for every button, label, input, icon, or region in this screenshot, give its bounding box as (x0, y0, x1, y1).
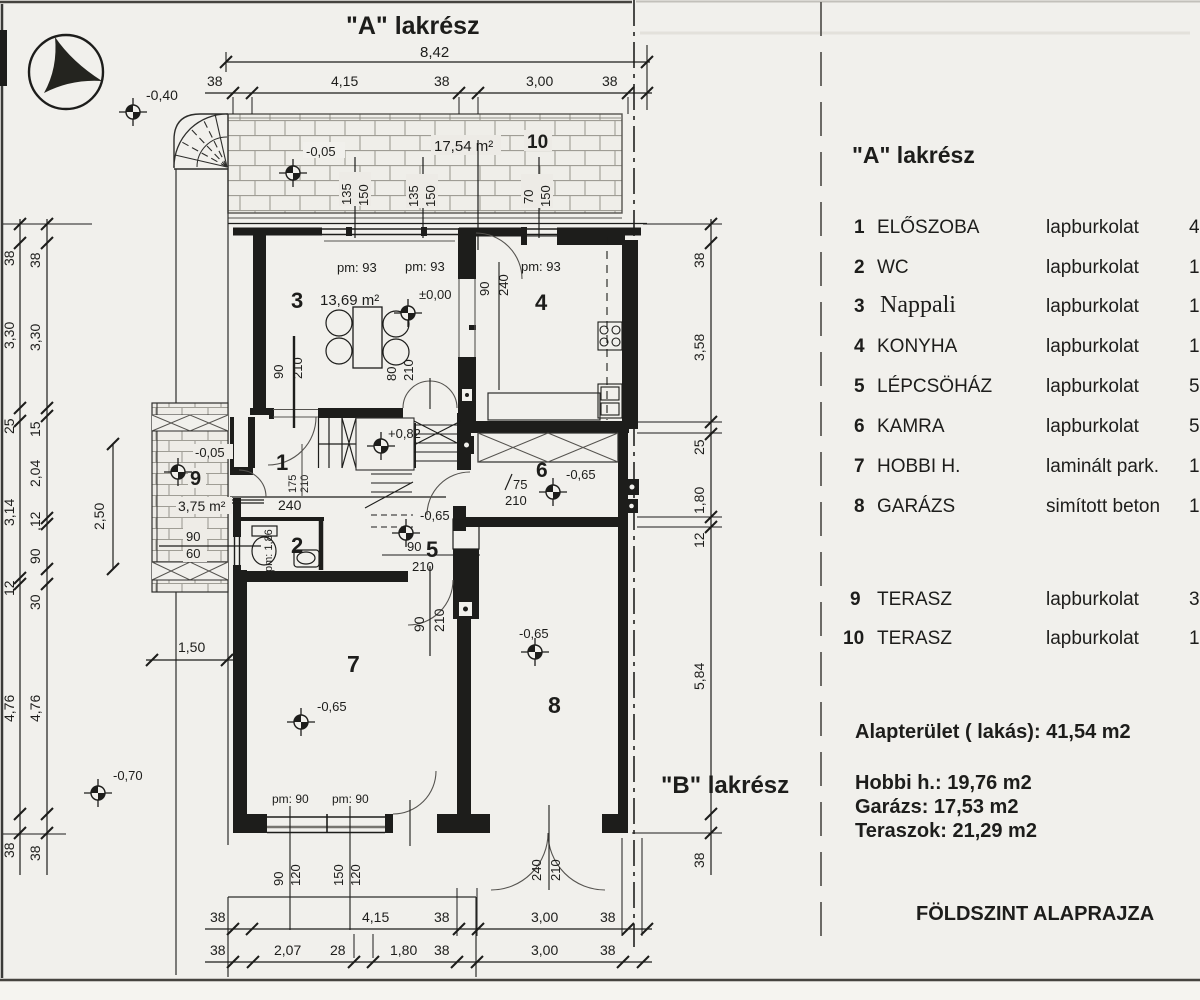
page border top (0, 1, 632, 4)
svg-text:1: 1 (1189, 336, 1200, 357)
north arrow (29, 35, 103, 109)
svg-text:38: 38 (1, 842, 17, 858)
stair landing (356, 418, 414, 470)
svg-text:38: 38 (434, 909, 450, 925)
kitchen inner face line (476, 235, 557, 237)
room7 door arc (408, 580, 453, 625)
legend row 6 KAMRA (854, 416, 1200, 437)
svg-text:2,07: 2,07 (274, 942, 301, 958)
svg-text:175: 175 (287, 475, 299, 493)
survey cross +0,82 (367, 432, 395, 460)
bottom window room7 band (267, 814, 385, 833)
left exterior wall: hall segment inner (248, 417, 255, 468)
terrace 10 brick band (228, 114, 622, 213)
svg-text:5: 5 (1189, 416, 1200, 437)
svg-text:90: 90 (27, 548, 43, 564)
svg-text:KAMRA: KAMRA (877, 416, 945, 437)
svg-text:pm: 1,86: pm: 1,86 (263, 529, 275, 572)
svg-text:simított beton: simított beton (1046, 496, 1160, 517)
extension verticals above bottom dims (354, 838, 642, 958)
svg-text:1: 1 (1189, 628, 1200, 649)
kitchen table (488, 393, 600, 420)
stair right wall black (457, 413, 471, 470)
svg-text:HOBBI H.: HOBBI H. (877, 456, 960, 477)
svg-text:±0,00: ±0,00 (419, 287, 451, 302)
legend row 8 GARAZS (854, 496, 1200, 517)
svg-text:Nappali: Nappali (880, 292, 956, 318)
svg-text:pm: 90: pm: 90 (272, 792, 309, 806)
svg-text:pm: 90: pm: 90 (332, 792, 369, 806)
wall living-south y=413 (250, 408, 273, 415)
svg-text:6: 6 (536, 459, 548, 482)
svg-text:38: 38 (600, 942, 616, 958)
kitchen flue squares (458, 385, 476, 406)
svg-text:pm: 93: pm: 93 (405, 259, 445, 274)
svg-text:150: 150 (423, 185, 438, 207)
svg-text:135: 135 (339, 183, 354, 205)
room7 window dim lines (289, 806, 291, 930)
svg-text:4: 4 (854, 336, 865, 357)
legend row 10 TERASZ (843, 628, 1200, 649)
left exterior wall: front door pier (230, 467, 253, 475)
svg-text:4,76: 4,76 (1, 695, 17, 722)
svg-text:120: 120 (348, 864, 363, 886)
svg-text:ELŐSZOBA: ELŐSZOBA (877, 216, 980, 238)
svg-text:90: 90 (411, 616, 427, 632)
svg-text:lapburkolat: lapburkolat (1046, 416, 1140, 437)
svg-text:30: 30 (27, 594, 43, 610)
svg-text:-0,65: -0,65 (566, 467, 596, 482)
svg-text:10: 10 (843, 628, 864, 649)
svg-text:lapburkolat: lapburkolat (1046, 336, 1140, 357)
living-stair double door arcs (403, 381, 457, 408)
svg-text:210: 210 (505, 493, 527, 508)
svg-text:4,15: 4,15 (331, 73, 358, 89)
svg-text:135: 135 (406, 185, 421, 207)
svg-text:-0,65: -0,65 (420, 508, 450, 523)
hall door extent line (301, 444, 303, 496)
svg-text:-0,40: -0,40 (146, 87, 178, 103)
left exterior wall: living cavity band (253, 229, 266, 410)
svg-text:Hobbi h.: 19,76 m2: Hobbi h.: 19,76 m2 (855, 772, 1032, 794)
kitchen sink (598, 384, 622, 418)
svg-text:4: 4 (1189, 217, 1200, 238)
extension line left bottom (3, 833, 66, 835)
page fold long-dash line (820, 2, 822, 947)
svg-text:15: 15 (27, 421, 43, 437)
svg-text:2,50: 2,50 (91, 503, 107, 530)
svg-text:-0,05: -0,05 (306, 144, 336, 159)
svg-text:90: 90 (271, 872, 286, 886)
stair upper flight treads (414, 421, 461, 461)
svg-text:9: 9 (850, 589, 861, 610)
svg-text:3: 3 (854, 296, 865, 317)
left dim chain A (1, 218, 26, 875)
svg-text:90: 90 (477, 282, 492, 296)
svg-text:TERASZ: TERASZ (877, 589, 952, 610)
top wall pier mid (459, 228, 522, 236)
svg-text:75: 75 (513, 477, 527, 492)
svg-text:17,54 m²: 17,54 m² (434, 138, 493, 155)
wc toilet (252, 526, 277, 565)
garage top wall (466, 517, 628, 527)
svg-text:38: 38 (602, 73, 618, 89)
svg-text:25: 25 (691, 439, 707, 455)
top dim line 8,42 (220, 44, 653, 110)
svg-text:-0,70: -0,70 (113, 768, 143, 783)
svg-text:"A" lakrész: "A" lakrész (852, 142, 975, 168)
legend row 4 KONYHA (854, 336, 1200, 357)
kitchen door arc (476, 233, 522, 279)
wc sink (294, 550, 319, 567)
svg-text:6: 6 (854, 416, 865, 437)
svg-text:7: 7 (854, 456, 865, 477)
svg-text:pm: 93: pm: 93 (521, 259, 561, 274)
svg-text:80: 80 (384, 367, 399, 381)
svg-text:GARÁZS: GARÁZS (877, 496, 955, 517)
svg-text:150: 150 (356, 184, 371, 206)
garage door arcs (491, 833, 548, 890)
bottom dim row 1 (205, 909, 653, 935)
svg-text:210: 210 (431, 608, 447, 632)
svg-text:5,84: 5,84 (691, 663, 707, 690)
label 10 terrace (524, 130, 552, 153)
svg-text:210: 210 (299, 475, 311, 493)
terrace 9 door labels 90/60 (183, 528, 207, 562)
page border left blob (0, 30, 7, 86)
svg-text:8: 8 (548, 692, 561, 718)
svg-text:240: 240 (529, 859, 544, 881)
svg-text:90: 90 (271, 365, 286, 379)
kitchen door dim line (498, 262, 500, 390)
wall room7 top y=570 (236, 571, 408, 582)
bottom dim row 2 (205, 942, 652, 968)
svg-text:3,30: 3,30 (27, 324, 43, 351)
svg-text:-0,65: -0,65 (519, 626, 549, 641)
stair fan top-left (174, 114, 228, 169)
dining table (353, 307, 382, 368)
svg-text:12: 12 (691, 532, 707, 548)
kamra cross (539, 478, 567, 506)
label 17,54 m2 (431, 135, 501, 155)
kitchen wall gap edge lines (458, 279, 460, 357)
left dim chain B (27, 218, 53, 875)
svg-text:38: 38 (27, 845, 43, 861)
terrace 9 door line (159, 545, 261, 547)
living door dim line (293, 336, 295, 428)
wall outer face left (227, 114, 229, 845)
stairwell cross -0,65 (392, 519, 420, 547)
svg-text:1,80: 1,80 (390, 942, 417, 958)
svg-text:38: 38 (600, 909, 616, 925)
svg-text:5: 5 (1189, 376, 1200, 397)
svg-text:8: 8 (854, 496, 865, 517)
page border left (1, 4, 4, 978)
window dim labels 135/150 (339, 172, 371, 206)
room7 cross (287, 708, 315, 736)
dim 2,50 (91, 438, 119, 575)
svg-text:2: 2 (291, 533, 303, 558)
svg-text:1,80: 1,80 (691, 487, 707, 514)
svg-text:2,04: 2,04 (27, 460, 43, 487)
svg-text:9: 9 (190, 468, 201, 490)
bottom apron outline (228, 896, 476, 898)
svg-text:1: 1 (1189, 257, 1200, 278)
landing east stub (410, 423, 416, 468)
porch door arc (427, 472, 470, 515)
stair mid flight treads (365, 474, 413, 508)
legend row 3 Nappali (854, 292, 1200, 318)
svg-text:90: 90 (186, 529, 200, 544)
svg-text:8,42: 8,42 (420, 44, 449, 61)
kamra hatch band (478, 433, 618, 462)
terrace 9 (152, 403, 228, 592)
legend row 5 LEPCSOHAZ (854, 376, 1200, 397)
svg-text:90: 90 (407, 539, 421, 554)
legend row 2 WC (854, 257, 1200, 278)
left exterior wall: room7 segment (233, 570, 247, 833)
svg-text:4,76: 4,76 (27, 695, 43, 722)
svg-text:5: 5 (854, 376, 865, 397)
legend row 9 TERASZ (850, 589, 1200, 610)
svg-text:"A" lakrész: "A" lakrész (346, 12, 480, 40)
svg-text:1: 1 (854, 217, 865, 238)
svg-text:1: 1 (1189, 456, 1200, 477)
svg-text:28: 28 (330, 942, 346, 958)
svg-text:lapburkolat: lapburkolat (1046, 628, 1140, 649)
svg-text:lapburkolat: lapburkolat (1046, 257, 1140, 278)
terrace 9 area (176, 497, 232, 514)
svg-text:2: 2 (854, 257, 865, 278)
svg-text:210: 210 (290, 357, 305, 379)
svg-text:TERASZ: TERASZ (877, 628, 952, 649)
svg-text:3,00: 3,00 (531, 909, 558, 925)
svg-text:150: 150 (331, 864, 346, 886)
svg-text:Teraszok: 21,29 m2: Teraszok: 21,29 m2 (855, 820, 1037, 842)
stair lower flight risers (318, 418, 356, 468)
svg-text:1: 1 (1189, 496, 1200, 517)
svg-text:4: 4 (535, 290, 548, 315)
kitchen window band (521, 227, 557, 245)
svg-text:1: 1 (1189, 296, 1200, 317)
garage cross (521, 638, 549, 666)
svg-text:3,30: 3,30 (1, 322, 17, 349)
left exterior wall: wc segment (233, 498, 241, 570)
wc top wall (233, 517, 324, 521)
svg-text:-0,05: -0,05 (195, 445, 225, 460)
front door arc (239, 470, 266, 497)
terrace edge vertical line (175, 169, 177, 975)
svg-text:laminált park.: laminált park. (1046, 456, 1159, 477)
svg-text:1,50: 1,50 (178, 639, 205, 655)
terrace 9 label -0,05 (193, 444, 233, 460)
dim 1,50 (146, 639, 234, 666)
svg-text:pm: 93: pm: 93 (337, 260, 377, 275)
svg-text:38: 38 (691, 852, 707, 868)
living cross pm0,00 (394, 299, 422, 327)
legend row 7 HOBBI H (854, 456, 1200, 477)
survey cross -0,05 brick band (279, 159, 307, 187)
window dim line 1 (354, 157, 356, 238)
window dim line 2 (422, 157, 424, 238)
right exterior wall (622, 240, 638, 429)
svg-text:10: 10 (527, 132, 548, 153)
top wall solid segment west (233, 228, 322, 236)
svg-text:LÉPCSÖHÁZ: LÉPCSÖHÁZ (877, 376, 992, 397)
svg-text:7: 7 (347, 651, 360, 677)
svg-text:38: 38 (210, 942, 226, 958)
svg-text:3,75 m²: 3,75 m² (178, 498, 226, 514)
interior wall living/kitchen vertical (458, 228, 476, 279)
svg-text:3,00: 3,00 (526, 73, 553, 89)
svg-text:38: 38 (434, 942, 450, 958)
svg-text:lapburkolat: lapburkolat (1046, 376, 1140, 397)
svg-text:240: 240 (278, 497, 302, 513)
stair door line (382, 554, 480, 556)
svg-text:"B" lakrész: "B" lakrész (661, 772, 789, 799)
label -0,05 on brick band (303, 142, 345, 159)
svg-text:3: 3 (1189, 589, 1200, 610)
svg-text:WC: WC (877, 257, 909, 278)
svg-text:38: 38 (210, 909, 226, 925)
svg-text:3,58: 3,58 (691, 334, 707, 361)
svg-text:4,15: 4,15 (362, 909, 389, 925)
svg-text:60: 60 (186, 546, 200, 561)
room7 door dim line (429, 566, 431, 656)
svg-text:KONYHA: KONYHA (877, 336, 958, 357)
svg-text:12: 12 (1, 580, 17, 596)
front door threshold (230, 499, 264, 501)
bottom wall segments (233, 814, 270, 833)
svg-text:3,00: 3,00 (531, 942, 558, 958)
survey cross -0,40 (119, 98, 147, 126)
svg-text:240: 240 (496, 274, 511, 296)
svg-text:38: 38 (691, 252, 707, 268)
kitchen bottom wall (466, 421, 629, 433)
top wall solid segment east (557, 228, 641, 236)
svg-text:210: 210 (548, 859, 563, 881)
svg-text:3,14: 3,14 (1, 499, 17, 526)
svg-text:38: 38 (27, 252, 43, 268)
svg-text:lapburkolat: lapburkolat (1046, 589, 1140, 610)
svg-text:lapburkolat: lapburkolat (1046, 217, 1140, 238)
dining chairs (326, 310, 409, 365)
page border bottom (0, 979, 1200, 982)
svg-text:1: 1 (276, 450, 288, 475)
terrace 9 number (188, 468, 206, 490)
svg-text:70: 70 (521, 190, 536, 204)
svg-text:Garázs: 17,53 m2: Garázs: 17,53 m2 (855, 796, 1018, 818)
property boundary dash-dot line (633, 0, 635, 947)
terrace 9 cross (164, 458, 192, 486)
living door arc (268, 417, 316, 465)
svg-text:lapburkolat: lapburkolat (1046, 296, 1140, 317)
terrace10 edge line (477, 140, 479, 250)
top dim chain row 2 (205, 73, 653, 114)
divider flue square (459, 602, 472, 616)
kitchen counter dashed line (606, 237, 608, 420)
wall room7/garage divider (457, 619, 471, 833)
svg-text:25: 25 (1, 418, 17, 434)
svg-text:120: 120 (288, 864, 303, 886)
top wall outer face line (228, 223, 647, 225)
extension line left top (3, 223, 92, 225)
svg-text:13,69 m²: 13,69 m² (320, 292, 379, 309)
living window band 1 (322, 227, 459, 241)
stair dashed lines (371, 514, 413, 516)
kamra door labels 75/210 (505, 474, 527, 508)
legend row 1 ELOSZOBA (854, 216, 1200, 238)
wc right wall (319, 519, 324, 570)
wc window in left wall (233, 537, 241, 565)
svg-text:38: 38 (434, 73, 450, 89)
garage sq symbol 2 (625, 499, 638, 513)
svg-text:3: 3 (291, 288, 303, 313)
svg-text:38: 38 (1, 250, 17, 266)
svg-text:-0,65: -0,65 (317, 699, 347, 714)
svg-text:,12: ,12 (27, 511, 43, 531)
kitchen stove (598, 322, 622, 350)
window dim line 3 (538, 157, 540, 238)
right dim chain (632, 218, 722, 875)
svg-text:Alapterület ( lakás): 41,54 m2: Alapterület ( lakás): 41,54 m2 (855, 721, 1131, 743)
garage sq symbol (625, 479, 639, 495)
svg-text:38: 38 (207, 73, 223, 89)
garage door center line (548, 805, 550, 890)
hall dim line (230, 496, 446, 498)
left exterior wall: hall segment outer (230, 417, 234, 469)
survey cross -0,70 (84, 779, 112, 807)
svg-text:FÖLDSZINT ALAPRAJZA: FÖLDSZINT ALAPRAJZA (916, 902, 1154, 925)
svg-text:150: 150 (538, 185, 553, 207)
